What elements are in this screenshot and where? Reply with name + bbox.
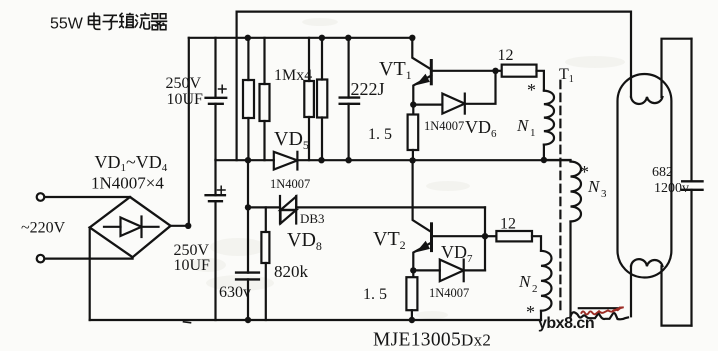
diac VD8 left bar — [279, 196, 281, 224]
svg-text:ybx8.cn: ybx8.cn — [538, 315, 594, 332]
wire rail B left segment — [248, 206, 280, 208]
node junction rail A x321 — [318, 157, 324, 163]
transformer T1 core dashed line — [559, 81, 561, 313]
svg-text:N: N — [516, 116, 530, 135]
wire AC input top — [45, 196, 131, 198]
diode VD7 anode wire — [413, 269, 440, 271]
node junction top rail x248 — [245, 35, 251, 41]
bridge inner diode cathode bar — [140, 217, 142, 238]
bridge rectifier VD1-VD4 diamond — [90, 197, 171, 257]
wire rail A to N3 corner — [544, 160, 571, 162]
capacitor 630v plate top — [236, 271, 259, 273]
svg-text:1200v: 1200v — [654, 181, 689, 196]
wire defacement straight line — [579, 307, 618, 309]
svg-text:1N4007: 1N4007 — [270, 177, 310, 191]
wire bottom negative rail — [90, 319, 541, 321]
diode VD7 triangle — [440, 260, 464, 282]
svg-text:630v: 630v — [219, 284, 251, 301]
resistor 12 VT1 left lead — [496, 70, 502, 72]
wire rail A to rail B link — [247, 160, 249, 207]
transistor VT1 base bar — [430, 61, 433, 84]
wire rail B right segment — [296, 206, 485, 208]
wire AC input bottom — [45, 258, 133, 260]
svg-text:250V: 250V — [166, 75, 202, 92]
node junction bottom rail x412 — [409, 317, 415, 323]
node junction VT2 base x485 — [482, 233, 488, 239]
resistor 1.5 VT2 body — [406, 277, 417, 310]
lamp bottom-left pin wire — [630, 266, 632, 316]
svg-text:10UF: 10UF — [174, 257, 211, 274]
resistor 12 VT1 body — [502, 65, 537, 77]
capacitor C2 250V10UF top lead — [214, 160, 216, 195]
svg-text:10UF: 10UF — [167, 91, 204, 108]
capacitor C2 plate top — [206, 194, 225, 196]
capacitor 222J plate bottom — [340, 103, 359, 105]
diode VD7 cathode bar — [463, 260, 465, 282]
capacitor 682 bottom lead — [690, 190, 692, 326]
transistor VT2 collector wire — [413, 160, 431, 231]
transistor VT1 collector wire — [412, 38, 430, 69]
svg-text:DB3: DB3 — [300, 211, 325, 226]
red scribble marks — [581, 307, 624, 314]
lamp tube outline — [618, 74, 672, 278]
node junction top rail VT1 collector — [409, 35, 415, 41]
capacitor C2 bottom lead — [214, 201, 216, 320]
lamp bottom filament — [631, 259, 663, 266]
capacitor 682 top lead — [690, 39, 692, 182]
lamp bottom-right pin wire — [662, 266, 692, 325]
resistor 1.5 VT1 body — [408, 115, 419, 151]
wire rail B drop to VT2 base — [484, 207, 486, 270]
label title CJK strokes 电子镇流器 — [89, 13, 168, 30]
transistor VT2 emitter arrow — [416, 241, 430, 253]
resistor R1 leads — [247, 38, 249, 160]
resistor 820k top lead — [265, 207, 267, 232]
node junction rail A x412 — [409, 157, 415, 163]
svg-text:1: 1 — [530, 127, 536, 139]
resistor R4 1M body — [317, 80, 327, 118]
lamp top-right pin wire — [662, 39, 692, 97]
svg-text:1N4007: 1N4007 — [429, 286, 469, 300]
capacitor C2 plus sign — [218, 186, 226, 193]
resistor 1.5 VT2 top lead — [412, 270, 414, 277]
svg-text:*: * — [580, 162, 589, 182]
winding N2 coil — [541, 251, 552, 311]
resistor 1.5 VT1 top lead — [412, 105, 414, 115]
svg-text:N: N — [587, 177, 601, 196]
bridge inner diode triangle — [121, 218, 142, 237]
capacitor C1 bottom lead — [214, 104, 216, 160]
capacitor 630v top lead — [247, 207, 249, 272]
svg-text:1. 5: 1. 5 — [363, 286, 387, 303]
bridge inner diode cathode lead — [142, 226, 159, 228]
transistor VT1 emitter arrow — [416, 74, 430, 86]
terminal input bottom — [37, 255, 45, 263]
capacitor 222J bottom lead — [348, 104, 350, 160]
capacitor 222J plate top — [340, 96, 359, 98]
resistor 1.5 VT1 bottom lead — [412, 150, 414, 160]
node junction rail A x248 — [245, 157, 251, 163]
diode VD7 cathode wire — [464, 269, 485, 271]
svg-text:2: 2 — [532, 283, 538, 295]
resistor 12 VT2 body — [496, 231, 532, 241]
svg-text:~220V: ~220V — [21, 220, 66, 237]
capacitor 630v plate bottom — [236, 278, 259, 280]
diode VD6 cathode wire — [465, 71, 496, 104]
node junction bridge + corner — [185, 223, 191, 229]
wire bottom rail small tick — [184, 321, 191, 324]
wire bridge positive output — [171, 225, 189, 227]
resistor R2 leads — [263, 38, 265, 160]
capacitor C2 plate bottom — [209, 200, 222, 202]
node junction VT1 base x495 — [492, 68, 498, 74]
svg-text:820k: 820k — [274, 262, 309, 281]
resistor 820k bottom lead — [265, 263, 267, 320]
capacitor 682 plate top — [682, 180, 702, 182]
resistor 12 VT1 right lead — [537, 71, 544, 91]
diode VD6 cathode bar — [464, 94, 466, 114]
diode VD5 triangle — [274, 152, 298, 170]
resistor R4 leads — [321, 38, 323, 160]
wire DC negative from bridge left vertex to bottom rail — [89, 228, 91, 321]
node junction rail A transformer tap — [541, 157, 547, 163]
transistor VT1 emitter wire — [413, 76, 431, 105]
wire +DC top rail — [189, 37, 413, 39]
node junction top rail x322 — [319, 35, 325, 41]
winding N3 coil — [571, 162, 582, 222]
svg-text:VD1~VD4: VD1~VD4 — [95, 152, 168, 174]
diac VD8 upper triangle — [281, 197, 297, 211]
diode VD5 cathode bar — [296, 152, 298, 170]
lamp top filament — [631, 97, 663, 104]
svg-text:682: 682 — [652, 165, 673, 180]
svg-text:3: 3 — [601, 188, 607, 200]
capacitor 222J top lead — [348, 38, 350, 98]
resistor R1 1M body — [243, 80, 254, 118]
transistor VT2 base lead — [432, 235, 486, 237]
wire rail A right segment — [297, 159, 570, 161]
node junction VT1 emitter x413 — [410, 101, 416, 107]
resistor R3 leads — [308, 38, 310, 160]
resistor 12 VT2 right lead — [532, 236, 541, 251]
svg-text:1N4007: 1N4007 — [424, 119, 464, 133]
svg-text:MJE13005Dx2: MJE13005Dx2 — [373, 330, 491, 351]
svg-text:*: * — [526, 302, 535, 322]
node junction bottom rail x248 — [245, 317, 251, 323]
wire rail A left segment — [216, 159, 274, 161]
winding N1 bottom lead — [543, 145, 545, 160]
svg-text:N: N — [518, 272, 532, 291]
svg-text:55W: 55W — [50, 16, 84, 33]
resistor R2 1M body — [260, 84, 270, 121]
node junction rail A x348 — [345, 157, 351, 163]
diac VD8 right bar — [295, 196, 297, 224]
capacitor C1 plate bottom — [209, 103, 223, 105]
wire top border from lamp top-left pin to divider node — [237, 12, 631, 161]
capacitor C1 plate top — [206, 97, 227, 99]
resistor 1.5 VT2 bottom lead — [411, 310, 413, 320]
node junction rail B x248 — [245, 204, 251, 210]
svg-text:12: 12 — [500, 216, 516, 233]
wire +DC left vertical riser — [188, 38, 190, 226]
winding N3 bottom lead — [569, 222, 571, 317]
svg-text:1. 5: 1. 5 — [368, 126, 392, 143]
wire N3 to lamp wavy segment — [571, 312, 629, 319]
node junction VT2 emitter x413 — [410, 267, 416, 273]
winding N2 bottom lead — [540, 311, 542, 320]
resistor 12 VT2 left lead — [485, 235, 496, 237]
capacitor 682 plate bottom — [682, 189, 702, 191]
svg-text:12: 12 — [498, 47, 514, 64]
svg-text:222J: 222J — [351, 79, 385, 99]
node junction top rail x348 — [345, 35, 351, 41]
capacitor C1 plus sign — [219, 85, 227, 92]
diode VD6 anode wire — [413, 103, 442, 105]
bridge inner diode anode lead — [104, 226, 121, 228]
transistor VT2 emitter wire — [413, 243, 431, 271]
diode VD6 triangle — [442, 94, 464, 114]
capacitor C1 250V10UF top lead — [214, 38, 216, 98]
terminal input top — [37, 193, 45, 201]
diac VD8 lower triangle — [281, 210, 297, 224]
resistor 820k body — [261, 232, 269, 263]
svg-text:*: * — [527, 80, 536, 100]
transistor VT1 base lead — [431, 70, 495, 72]
svg-text:1Mx4: 1Mx4 — [274, 67, 312, 84]
winding N1 coil — [544, 91, 554, 145]
capacitor 630v bottom lead — [247, 279, 249, 320]
transistor VT2 base bar — [430, 224, 433, 251]
svg-text:1N4007×4: 1N4007×4 — [91, 174, 164, 193]
resistor R3 1M body — [304, 81, 314, 117]
